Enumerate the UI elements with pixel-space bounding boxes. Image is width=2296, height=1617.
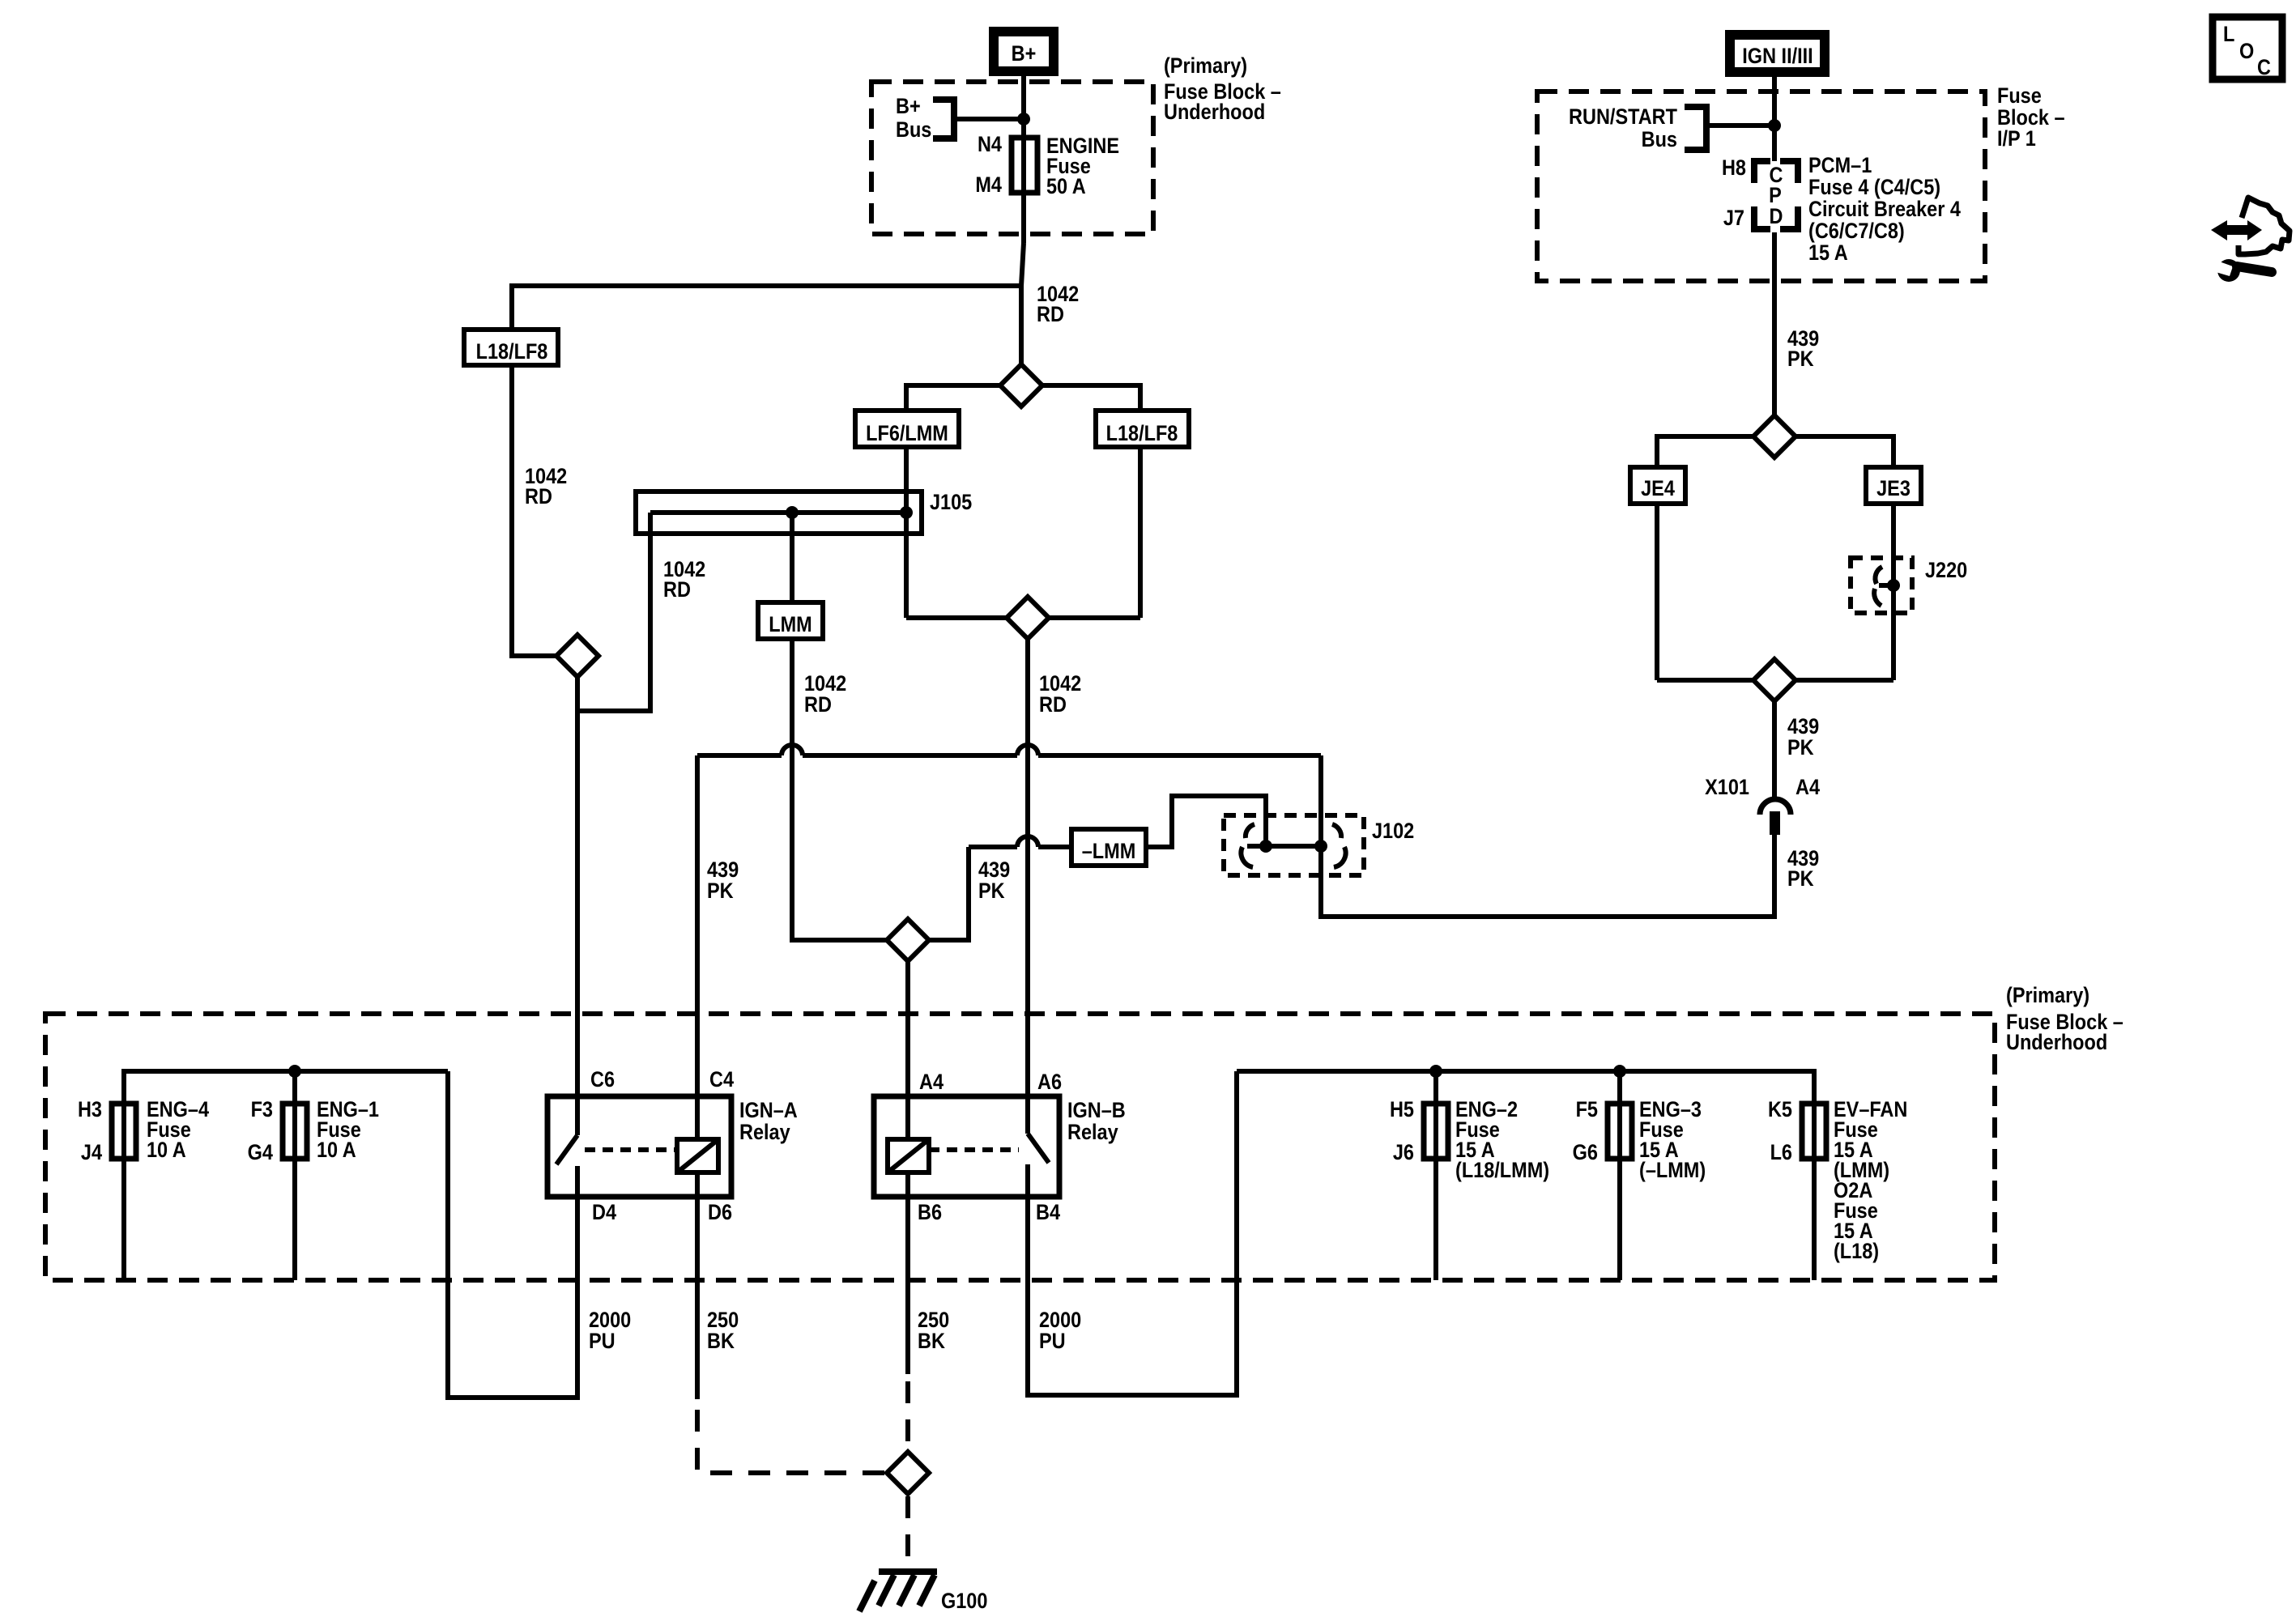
svg-text:15 A: 15 A: [1808, 241, 1848, 266]
svg-text:N4: N4: [978, 133, 1002, 157]
svg-text:A4: A4: [919, 1070, 944, 1095]
svg-text:O: O: [2239, 40, 2254, 64]
circuit breaker CPD (PCM-1): [1722, 154, 1961, 266]
splice diamond 439 PK to A4: [887, 919, 929, 961]
svg-text:Relay: Relay: [1067, 1121, 1118, 1145]
wire ENG-4 fuse bottom: [121, 1106, 126, 1280]
svg-text:PK: PK: [1787, 347, 1814, 372]
wire J102 internal: [1247, 844, 1321, 849]
wire B6 dashed to ground splice: [905, 1381, 910, 1449]
relay IGN-B: [874, 1070, 1126, 1225]
node J102 left terminal: [1259, 840, 1272, 853]
wire right fuse bus: [1237, 1071, 1814, 1106]
svg-text:L18/LF8: L18/LF8: [476, 340, 548, 364]
wire RUN/START Bus to junction: [1706, 123, 1774, 128]
svg-text:(–LMM): (–LMM): [1639, 1159, 1706, 1183]
wire below left L18/LF8 down to left diamond: [512, 365, 556, 656]
svg-text:BK: BK: [707, 1330, 735, 1354]
wire IGN II/III to CPD breaker: [1772, 77, 1777, 161]
hop arc over LMM wire: [782, 745, 803, 755]
fuse EV-FAN / O2A 15 A: [1768, 1098, 1907, 1264]
wire diamond4 to JE4 branch: [1657, 436, 1753, 467]
svg-text:J4: J4: [81, 1141, 102, 1165]
wire EV-FAN bottom: [1812, 1106, 1817, 1280]
wire CPD to diamond4 (439 PK): [1772, 232, 1777, 415]
LOC reference box: [2213, 17, 2282, 79]
wire -LMM to J102: [1146, 796, 1266, 847]
fuse block underhood (top) dashed box: [871, 82, 1153, 234]
svg-text:B+: B+: [1012, 42, 1037, 66]
wire J105 internal bus: [650, 510, 906, 515]
wire J105 to LMM box: [790, 513, 794, 602]
svg-text:RD: RD: [663, 578, 691, 602]
svg-text:Bus: Bus: [896, 118, 931, 143]
wire branch to left L18/LF8: [512, 286, 1021, 330]
connector J220 dashed box: [1851, 558, 1912, 613]
splice diamond left 1042 RD: [556, 635, 598, 677]
wire right L18/LF8 down: [1138, 447, 1143, 618]
svg-text:A6: A6: [1037, 1070, 1062, 1095]
svg-text:L6: L6: [1770, 1141, 1792, 1165]
svg-text:(C6/C7/C8): (C6/C7/C8): [1808, 219, 1905, 244]
svg-text:(Primary): (Primary): [1164, 54, 1247, 79]
svg-text:JE4: JE4: [1641, 477, 1675, 501]
fuse ENG-4 10 A: [78, 1098, 209, 1165]
relay IGN-A: [547, 1068, 798, 1225]
node ENG-3 bus tap: [1613, 1065, 1626, 1078]
node label box L18/LF8 (right): [1096, 411, 1189, 447]
wire diamond1 to LF6/LMM branch: [906, 385, 1000, 410]
svg-text:(Primary): (Primary): [2006, 984, 2089, 1008]
wire diamond3 down to relay A4: [905, 961, 910, 1138]
wire left diamond to relay C6: [575, 677, 580, 1135]
wire LMM box down to diamond3: [792, 639, 887, 940]
wire rejoin loop bottom right: [1657, 678, 1893, 683]
fuse block underhood (bottom) dashed box: [45, 1014, 1995, 1280]
svg-text:G6: G6: [1573, 1141, 1598, 1165]
wire ENG-3 tap: [1617, 1071, 1622, 1280]
svg-text:IGN II/III: IGN II/III: [1742, 45, 1813, 69]
svg-text:RD: RD: [525, 485, 552, 509]
svg-text:Bus: Bus: [1642, 128, 1677, 152]
svg-text:M4: M4: [975, 173, 1002, 198]
wire LF6/LMM box through J105 down: [904, 447, 909, 618]
svg-text:PK: PK: [707, 879, 734, 904]
wire relay B6 down (250 BK): [905, 1172, 910, 1374]
splice diamond ground G100: [887, 1452, 929, 1494]
svg-text:D6: D6: [708, 1201, 732, 1225]
svg-text:PU: PU: [1039, 1330, 1066, 1354]
node J220 splice: [1887, 579, 1900, 592]
dashed ground wiring: [697, 1381, 908, 1568]
wire X101 up to rejoin diamond: [1772, 701, 1777, 802]
svg-text:IGN–A: IGN–A: [739, 1099, 798, 1123]
splice diamond below ENGINE fuse: [1000, 364, 1042, 406]
svg-text:K5: K5: [1768, 1098, 1792, 1122]
svg-text:I/P 1: I/P 1: [1997, 127, 2036, 151]
svg-text:L: L: [2223, 23, 2234, 47]
svg-text:BK: BK: [918, 1330, 946, 1354]
fuse ENG-2 15 A: [1390, 1098, 1549, 1183]
svg-text:RUN/START: RUN/START: [1569, 105, 1677, 130]
svg-text:Underhood: Underhood: [1164, 100, 1265, 125]
wire ground splice to G100: [905, 1496, 910, 1568]
fuse ENG-3 15 A: [1573, 1098, 1706, 1183]
wire D6 dashed to ground splice: [697, 1410, 884, 1473]
svg-text:X101: X101: [1705, 776, 1749, 800]
node label box -LMM: [1071, 829, 1146, 866]
wire relay D4 loop to fuse bus (2000 PU): [448, 1071, 577, 1398]
node B+ bus junction: [1017, 113, 1030, 126]
svg-text:50 A: 50 A: [1046, 175, 1086, 199]
wire J102 down and across to X101: [1321, 755, 1774, 917]
node J102 right terminal: [1314, 840, 1327, 853]
wire B+ Bus to junction: [956, 117, 1024, 121]
node label box L18/LF8 (left): [464, 330, 558, 365]
svg-text:PK: PK: [978, 879, 1005, 904]
svg-text:L18/LF8: L18/LF8: [1106, 422, 1178, 446]
svg-text:B6: B6: [918, 1201, 942, 1225]
svg-text:(L18/LMM): (L18/LMM): [1455, 1159, 1549, 1183]
fuse block I/P 1 dashed box: [1537, 91, 1985, 281]
wire rejoin loop bottom: [906, 615, 1140, 620]
wire 439 PK down to relay C4: [695, 755, 700, 1139]
svg-text:D4: D4: [592, 1201, 616, 1225]
svg-text:10 A: 10 A: [317, 1138, 356, 1163]
svg-text:H3: H3: [78, 1098, 102, 1122]
svg-text:B4: B4: [1036, 1201, 1060, 1225]
svg-text:–LMM: –LMM: [1082, 840, 1136, 864]
svg-text:Fuse 4 (C4/C5): Fuse 4 (C4/C5): [1808, 176, 1940, 200]
svg-text:IGN–B: IGN–B: [1067, 1099, 1126, 1123]
B+ Bus bracket: [896, 95, 954, 143]
svg-text:RD: RD: [804, 693, 832, 717]
node label box JE3: [1866, 467, 1921, 504]
power terminal B+ box: [994, 32, 1054, 71]
svg-text:PK: PK: [1787, 736, 1814, 760]
wire JE4 down: [1655, 504, 1659, 680]
svg-text:G100: G100: [941, 1589, 987, 1614]
splice J220: [1874, 559, 1967, 606]
wire diamond4 to JE3 branch: [1795, 436, 1893, 467]
node J105 right tap: [900, 506, 913, 519]
node ENG-1 bus tap: [288, 1065, 301, 1078]
wire diamond1 to right L18/LF8 branch: [1042, 385, 1140, 410]
svg-text:F3: F3: [251, 1098, 273, 1122]
hop arc over A6 wire at -LMM line: [1017, 836, 1038, 847]
wire left fuse bus: [124, 1071, 448, 1106]
svg-text:JE3: JE3: [1876, 477, 1910, 501]
splice diamond rejoin LF6/L18: [1007, 597, 1049, 639]
wire relay D6 down (250 BK): [695, 1172, 700, 1399]
node J105 LMM tap: [786, 506, 799, 519]
svg-text:PK: PK: [1787, 867, 1814, 891]
svg-text:RD: RD: [1039, 693, 1067, 717]
hop arc over A6 wire: [1017, 745, 1038, 755]
svg-text:LMM: LMM: [769, 613, 811, 637]
wire 439 PK horizontal with hops: [697, 753, 1321, 758]
svg-text:G4: G4: [248, 1141, 273, 1165]
wire JE3 down through J220: [1891, 504, 1896, 680]
svg-text:C6: C6: [590, 1068, 615, 1092]
svg-text:Underhood: Underhood: [2006, 1031, 2107, 1055]
wire ENGINE fuse to splice diamond (1042 RD): [1021, 243, 1024, 364]
RUN/START Bus bracket: [1569, 105, 1706, 152]
svg-text:D: D: [1770, 205, 1783, 229]
svg-text:C4: C4: [709, 1068, 734, 1092]
svg-text:PCM–1: PCM–1: [1808, 154, 1872, 178]
svg-text:J102: J102: [1372, 819, 1414, 844]
svg-text:C: C: [2257, 56, 2271, 80]
svg-text:H5: H5: [1390, 1098, 1414, 1122]
svg-text:PU: PU: [589, 1330, 616, 1354]
wire B+ to ENGINE fuse: [1021, 76, 1026, 243]
svg-text:A4: A4: [1795, 776, 1820, 800]
svg-text:Fuse: Fuse: [1997, 84, 2042, 109]
node RUN/START bus junction: [1768, 119, 1781, 132]
connector J102 dashed box: [1224, 815, 1364, 875]
wire diamond2 down to relay A6 (1042 RD): [1025, 639, 1030, 1134]
svg-text:J7: J7: [1723, 206, 1744, 231]
node label box JE4: [1630, 467, 1685, 504]
svg-text:B+: B+: [896, 95, 921, 119]
svg-text:F5: F5: [1576, 1098, 1598, 1122]
splice diamond below CPD: [1753, 415, 1795, 457]
fuse ENG-1 10 A: [248, 1098, 379, 1165]
svg-text:Circuit Breaker 4: Circuit Breaker 4: [1808, 198, 1961, 222]
svg-text:H8: H8: [1722, 156, 1746, 181]
connector X101 pin A4: [1705, 776, 1820, 835]
wire ENG-2 tap: [1433, 1071, 1438, 1280]
splice diamond rejoin JE4/JE3: [1753, 659, 1795, 701]
node label box LMM: [758, 602, 823, 639]
service procedure icon: [2210, 198, 2290, 282]
splice pack J105: [636, 491, 972, 534]
wire relay B4 loop to right fuse bus (2000 PU): [1028, 1071, 1237, 1395]
node ENG-2 bus tap: [1429, 1065, 1442, 1078]
wire J105 left tap joining C6 wire: [577, 513, 650, 711]
wire diamond3 right jog to -LMM: [929, 847, 1071, 940]
svg-text:Relay: Relay: [739, 1121, 790, 1145]
svg-text:J105: J105: [930, 491, 972, 515]
svg-text:J6: J6: [1393, 1141, 1414, 1165]
svg-text:RD: RD: [1037, 303, 1064, 327]
svg-text:LF6/LMM: LF6/LMM: [866, 422, 948, 446]
wire ENG-1 fuse tap: [292, 1071, 297, 1280]
connector J102 terminals: [1241, 824, 1345, 867]
node label box LF6/LMM: [855, 411, 959, 447]
svg-text:10 A: 10 A: [147, 1138, 186, 1163]
power terminal IGN II/III box: [1730, 35, 1825, 72]
svg-text:J220: J220: [1925, 559, 1967, 583]
fuse ENGINE 50 A: [975, 133, 1119, 199]
svg-text:(L18): (L18): [1834, 1240, 1879, 1264]
